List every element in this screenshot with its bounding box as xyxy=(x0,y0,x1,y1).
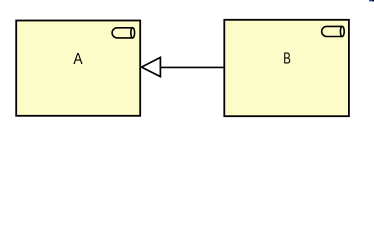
node A cylinder icon xyxy=(112,28,135,38)
generalization line xyxy=(160,66,224,68)
node B cylinder icon xyxy=(322,26,345,36)
top-right corner artifact xyxy=(369,0,372,1)
node A box xyxy=(16,21,140,116)
node B box xyxy=(224,20,349,116)
hollow triangle arrowhead xyxy=(142,57,161,76)
svg-text:B: B xyxy=(283,50,291,67)
svg-text:A: A xyxy=(73,51,83,68)
